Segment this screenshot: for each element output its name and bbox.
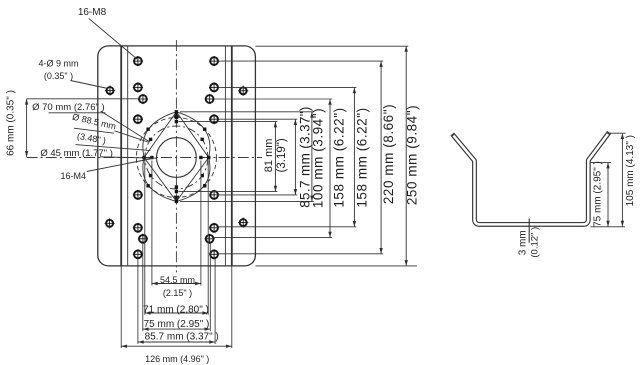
ext 75 top <box>590 162 611 164</box>
svg-text:71 mm (2.80" ): 71 mm (2.80" ) <box>143 304 209 315</box>
M8 hole left r4 <box>133 190 143 200</box>
M8 hole right r3 <box>209 114 219 124</box>
ext 126 left <box>120 266 122 348</box>
svg-text:75 mm (2.95" ): 75 mm (2.95" ) <box>144 319 210 330</box>
M4 hole dot WSW <box>149 174 152 177</box>
M8 hole left r2 <box>133 82 143 92</box>
adapter arc bottom-left <box>143 158 177 202</box>
dim line 158b <box>353 87 355 226</box>
arrow 158b bottom <box>353 221 356 227</box>
D9 hole top-left <box>105 86 115 96</box>
svg-text:250 mm (9.84"): 250 mm (9.84") <box>405 105 420 205</box>
arrow 75 right <box>205 327 211 330</box>
D9 hole top-right <box>238 86 248 96</box>
M4 hole dot SE <box>203 184 206 187</box>
ext row5 to 85.7 <box>218 194 297 196</box>
arrow 75 top <box>606 163 609 169</box>
svg-text:(2.15" ): (2.15" ) <box>163 288 192 298</box>
dim line 85.7b <box>138 341 215 343</box>
D9 hole bottom-left <box>105 218 115 228</box>
arrow 220 bottom <box>379 248 382 254</box>
M4 hole dot SW <box>146 184 149 187</box>
arrow 81 bottom <box>274 186 277 192</box>
svg-text:(3.19"): (3.19") <box>276 138 288 172</box>
arrow 71 left <box>145 311 151 314</box>
M8 hole left r6 <box>133 249 143 259</box>
ext row1 to 220 <box>218 60 383 62</box>
svg-text:75 mm (2.95" ): 75 mm (2.95" ) <box>593 161 604 227</box>
svg-text:105 mm (4.13" ): 105 mm (4.13" ) <box>625 135 636 206</box>
ext row2 to 158b <box>218 86 356 88</box>
svg-text:(0.35" ): (0.35" ) <box>44 71 73 81</box>
dim line 71 <box>145 312 208 314</box>
M8 hole right r4 <box>209 190 219 200</box>
arrow 75 bottom <box>606 221 609 227</box>
leader 4-D9 <box>71 81 109 89</box>
svg-text:158 mm (6.22"): 158 mm (6.22") <box>331 107 346 207</box>
leader D70 underline <box>49 112 106 114</box>
vertical centerline <box>175 40 177 272</box>
bolt circle D70 dash-dot <box>145 126 208 189</box>
M4 hole dot top b <box>175 120 178 123</box>
M4 hole dot bottom b <box>175 190 178 193</box>
dim line 250 <box>405 46 407 266</box>
arrow 71 right <box>202 311 208 314</box>
bolt circle D88.5 dashed <box>136 118 216 198</box>
arrow 66mm bottom <box>25 151 28 157</box>
dim line 220 <box>380 61 382 254</box>
arrow 66mm top <box>25 99 28 105</box>
ext 75 right <box>209 244 211 332</box>
leader 16-M4 <box>87 159 152 172</box>
adapter arc top-right <box>176 112 210 158</box>
M8 hole right r2 <box>209 82 219 92</box>
svg-text:Ø 70 mm (2.76" ): Ø 70 mm (2.76" ) <box>32 102 105 113</box>
M8 hole left r5 <box>133 223 143 233</box>
leader 3.48 underline <box>76 145 151 151</box>
circle D45 <box>157 138 197 178</box>
arrow 250 top <box>405 46 408 52</box>
arrow 54.5 right <box>195 282 201 285</box>
M8 hole left shifted top <box>138 94 148 104</box>
leader D88.5 <box>115 131 149 142</box>
dim line 85.7 <box>294 119 296 195</box>
arrow 100 bottom <box>310 196 313 202</box>
arrow 85.7 bottom <box>294 189 297 195</box>
ext dot top to 81 <box>179 121 278 123</box>
channel right wall outer line <box>231 46 233 266</box>
M4 hole dot NW <box>146 128 149 131</box>
M8 hole right r5 <box>209 223 219 233</box>
svg-text:4-Ø 9 mm: 4-Ø 9 mm <box>38 58 78 68</box>
leader D88.5 underline <box>74 128 114 133</box>
M4 hole dot top vertex <box>175 110 178 113</box>
svg-text:126 mm (4.96" ): 126 mm (4.96" ) <box>145 354 209 364</box>
ext row3 to 158a <box>214 98 333 100</box>
ext bottom vertex to 100 <box>180 200 314 202</box>
M4 hole dot bottom a <box>175 185 178 188</box>
svg-text:81 mm: 81 mm <box>263 139 275 173</box>
ext 126 right <box>231 266 233 348</box>
channel left wall outer line <box>120 46 122 266</box>
arrow 126 right <box>226 345 232 348</box>
svg-text:16-M8: 16-M8 <box>78 7 107 18</box>
plate outline <box>98 46 256 266</box>
ext bottom shared <box>591 226 626 228</box>
ext 85.7 right <box>214 259 216 345</box>
top vertex tick <box>173 112 179 118</box>
leader D45 <box>100 157 156 158</box>
svg-text:100 mm (3.94"): 100 mm (3.94") <box>311 108 326 208</box>
svg-text:Ø 45 mm (1.77" ): Ø 45 mm (1.77" ) <box>40 148 113 159</box>
ext row6 to 158b <box>218 226 356 228</box>
M8 hole right shifted top <box>205 94 215 104</box>
ext line 66mm top <box>27 98 140 100</box>
ext 105 top <box>610 132 626 134</box>
arrow 85.7b left <box>138 340 144 343</box>
horizontal centerline <box>27 157 262 159</box>
arrow 81 top <box>274 122 277 128</box>
ext top vertex to 100 <box>180 111 314 113</box>
adapter square outline (diamond) <box>144 112 209 202</box>
M4 hole dot axis left outer <box>142 156 145 159</box>
ext 54.5 right <box>200 161 202 286</box>
M4 hole dot ENE <box>201 138 204 141</box>
D9 hole bottom-right <box>238 218 248 228</box>
ext 85.7 left <box>137 259 139 345</box>
svg-text:158 mm (6.22"): 158 mm (6.22") <box>354 107 369 207</box>
arrow 85.7b right <box>209 340 215 343</box>
channel profile inner white <box>453 134 608 224</box>
M8 hole right shifted bottom <box>205 234 215 244</box>
adapter arc top-left <box>143 112 177 158</box>
adapter arc bottom-right <box>176 158 210 202</box>
svg-text:3 mm: 3 mm <box>517 230 528 255</box>
M4 hole dot top a <box>175 116 178 119</box>
dim line 54.5 <box>152 283 201 285</box>
M8 hole right r6 <box>209 249 219 259</box>
dim line 81 <box>274 122 276 192</box>
M4 hole dot axis left inner <box>150 156 153 159</box>
arrow 100 top <box>310 112 313 118</box>
svg-text:85.7 mm (3.37" ): 85.7 mm (3.37" ) <box>145 332 219 343</box>
M8 hole left r3 <box>133 114 143 124</box>
channel right wall inner line <box>224 46 226 266</box>
M8 hole right r1 <box>209 56 219 66</box>
svg-text:16-M4: 16-M4 <box>60 171 86 181</box>
M8 hole left r1 <box>133 56 143 66</box>
M4 hole dot NE <box>203 128 206 131</box>
arrow 75 left <box>143 327 149 330</box>
arrow 105 bottom <box>621 221 624 227</box>
dim line 158a <box>329 99 331 238</box>
arrow 158b top <box>353 88 356 94</box>
dim line 126 <box>121 345 232 347</box>
channel profile outer stroke <box>452 132 609 224</box>
ext 71 left <box>144 161 146 315</box>
bottom vertex tick <box>173 196 179 202</box>
arrow 250 bottom <box>405 260 408 266</box>
M4 hole dot axis right outer <box>207 156 210 159</box>
ext 75 left <box>142 244 144 332</box>
ext row4 to 85.7 <box>218 118 297 120</box>
svg-text:54.5 mm: 54.5 mm <box>160 275 195 285</box>
arrow 105 top <box>621 133 624 139</box>
M8 hole left shifted bottom <box>138 234 148 244</box>
arrow 158a bottom <box>328 232 331 238</box>
dim line 66mm <box>26 99 28 157</box>
arrow 85.7 top <box>294 119 297 125</box>
leader 16-M8 <box>89 19 137 60</box>
dim line 75 <box>143 328 211 330</box>
arrow 54.5 left <box>152 282 158 285</box>
ext 54.5 left <box>151 161 153 286</box>
M4 hole dot bottom vertex <box>175 200 178 203</box>
ext 71 right <box>207 161 209 315</box>
arrow 158a top <box>328 99 331 105</box>
svg-text:220 mm (8.66"): 220 mm (8.66") <box>381 104 396 204</box>
channel left wall inner line <box>127 46 129 266</box>
ext dot bottom to 81 <box>179 191 278 193</box>
M4 hole dot axis right inner <box>199 156 202 159</box>
ext plate top to 250 <box>255 45 408 47</box>
arrow 126 left <box>121 345 127 348</box>
ext row6s to 158a <box>214 237 333 239</box>
ext row7 to 220 <box>218 253 383 255</box>
dim line 100 <box>311 112 313 202</box>
svg-text:(3.48" ): (3.48" ) <box>76 131 107 146</box>
svg-text:(0.12" ): (0.12" ) <box>529 227 540 258</box>
dim line 75 right <box>607 163 609 227</box>
3mm thickness tick <box>528 218 530 242</box>
leader D70 <box>101 111 150 142</box>
arrow 220 top <box>379 61 382 67</box>
dim line 105 <box>621 133 623 226</box>
M4 hole dot WNW <box>149 138 152 141</box>
svg-text:66 mm (0.35" ): 66 mm (0.35" ) <box>5 90 16 156</box>
ext plate bottom to 250 <box>255 265 417 267</box>
M4 hole dot ESE <box>201 174 204 177</box>
